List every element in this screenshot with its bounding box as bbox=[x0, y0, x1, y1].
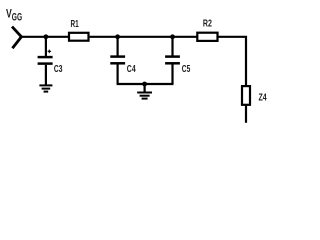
svg-text:C5: C5 bbox=[182, 64, 191, 75]
wire R2 to Z4 with corner bbox=[219, 37, 247, 86]
node B junction dot bbox=[115, 34, 120, 39]
svg-text:R2: R2 bbox=[203, 19, 212, 30]
node VGG label bbox=[6, 6, 22, 23]
wire bottom rail C4 to C5 bbox=[117, 83, 174, 85]
svg-text:GG: GG bbox=[12, 12, 22, 24]
resistor R1 bbox=[69, 33, 89, 41]
node A junction dot bbox=[44, 34, 49, 39]
wire below Z4 bbox=[245, 105, 247, 123]
wire R1 to R2 bbox=[90, 36, 197, 38]
input terminal chevron bbox=[12, 27, 21, 49]
wire chevron to R1 bbox=[21, 36, 68, 38]
capacitor C5 bbox=[165, 37, 180, 84]
svg-text:C3: C3 bbox=[54, 64, 63, 75]
resistor R2 bbox=[197, 33, 217, 41]
node C junction dot bbox=[170, 34, 175, 39]
svg-text:Z4: Z4 bbox=[259, 93, 267, 104]
impedance Z4 bbox=[242, 86, 250, 105]
capacitor C4 bbox=[110, 37, 125, 84]
svg-text:R1: R1 bbox=[71, 19, 79, 30]
capacitor C3 bbox=[38, 37, 53, 86]
node D junction dot bbox=[142, 82, 147, 87]
svg-text:C4: C4 bbox=[127, 64, 136, 75]
ground (C3) bbox=[39, 85, 52, 91]
ground (rail) bbox=[137, 84, 152, 99]
